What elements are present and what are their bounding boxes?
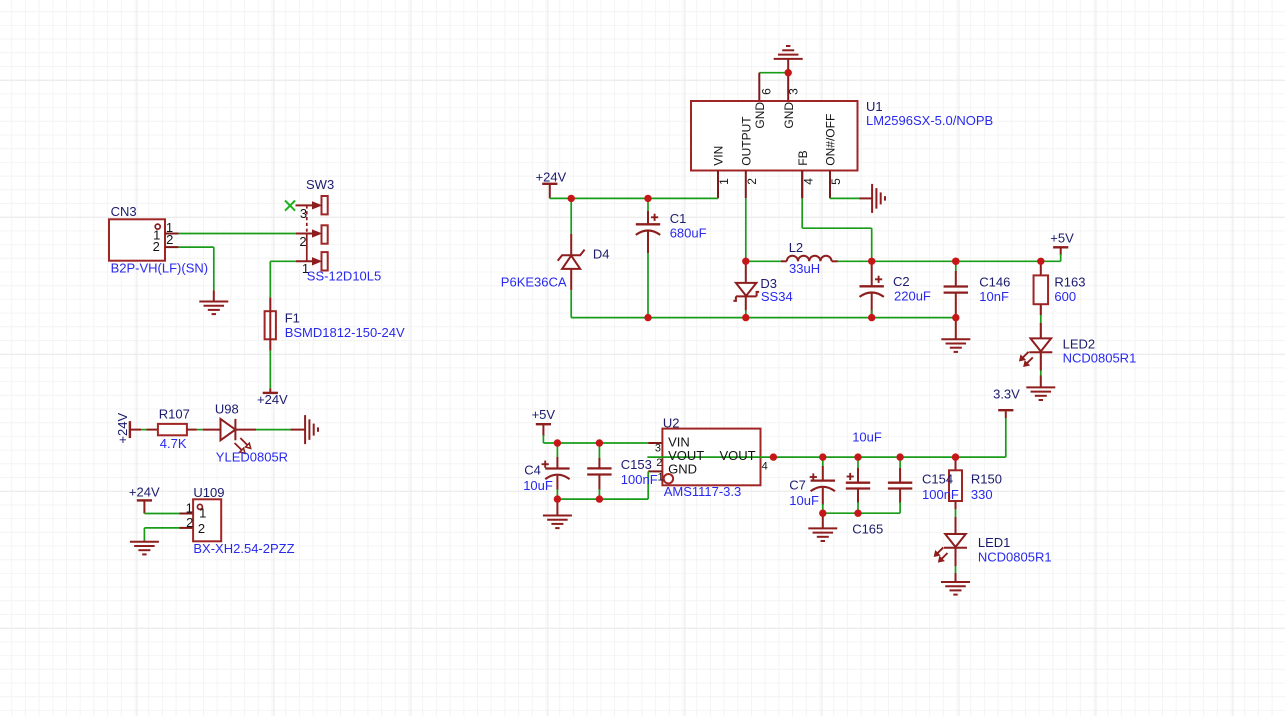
- svg-text:F1: F1: [285, 311, 300, 326]
- svg-text:R150: R150: [971, 471, 1002, 486]
- svg-text:2: 2: [198, 521, 205, 536]
- svg-text:U98: U98: [215, 402, 239, 417]
- svg-text:5: 5: [829, 178, 843, 185]
- svg-text:+5V: +5V: [532, 407, 556, 422]
- svg-text:GND: GND: [753, 102, 767, 129]
- svg-text:SS34: SS34: [761, 289, 793, 304]
- svg-text:100nF: 100nF: [621, 472, 658, 487]
- svg-text:GND: GND: [668, 462, 697, 477]
- svg-text:10nF: 10nF: [979, 289, 1009, 304]
- svg-text:C2: C2: [893, 274, 910, 289]
- svg-text:P6KE36CA: P6KE36CA: [501, 274, 567, 289]
- svg-text:C153: C153: [621, 457, 652, 472]
- svg-text:33uH: 33uH: [789, 261, 820, 276]
- svg-text:C146: C146: [979, 274, 1010, 289]
- svg-text:2: 2: [166, 232, 173, 247]
- svg-text:1: 1: [658, 472, 664, 484]
- svg-text:3.3V: 3.3V: [993, 386, 1020, 401]
- svg-text:VIN: VIN: [712, 146, 726, 166]
- svg-text:B2P-VH(LF)(SN): B2P-VH(LF)(SN): [111, 261, 209, 276]
- svg-text:NCD0805R1: NCD0805R1: [978, 549, 1052, 564]
- svg-text:YLED0805R: YLED0805R: [216, 449, 288, 464]
- svg-text:L2: L2: [789, 240, 803, 255]
- svg-text:1: 1: [186, 500, 193, 515]
- svg-text:VOUT: VOUT: [720, 448, 756, 463]
- svg-text:680uF: 680uF: [670, 226, 707, 241]
- svg-text:C4: C4: [524, 462, 541, 477]
- svg-text:+5V: +5V: [1050, 230, 1074, 245]
- svg-text:SW3: SW3: [306, 177, 334, 192]
- svg-text:2: 2: [656, 457, 662, 469]
- svg-text:C165: C165: [852, 521, 883, 536]
- svg-text:100nF: 100nF: [922, 487, 959, 502]
- svg-text:2: 2: [745, 178, 759, 185]
- svg-text:+24V: +24V: [257, 392, 288, 407]
- svg-text:2: 2: [299, 234, 306, 249]
- svg-text:LM2596SX-5.0/NOPB: LM2596SX-5.0/NOPB: [866, 113, 993, 128]
- svg-text:3: 3: [655, 442, 661, 454]
- svg-text:D4: D4: [593, 246, 610, 261]
- svg-text:NCD0805R1: NCD0805R1: [1063, 351, 1137, 366]
- svg-text:6: 6: [760, 88, 774, 95]
- svg-text:+24V: +24V: [536, 170, 567, 185]
- svg-text:3: 3: [300, 206, 307, 221]
- svg-text:10uF: 10uF: [789, 493, 819, 508]
- svg-text:4: 4: [801, 178, 815, 185]
- svg-text:600: 600: [1054, 289, 1076, 304]
- svg-text:1: 1: [717, 178, 731, 185]
- svg-text:2: 2: [186, 515, 193, 530]
- svg-text:2: 2: [153, 239, 160, 254]
- svg-text:R163: R163: [1054, 274, 1085, 289]
- svg-text:OUTPUT: OUTPUT: [740, 116, 754, 166]
- svg-text:10uF: 10uF: [523, 478, 553, 493]
- svg-text:C1: C1: [670, 211, 687, 226]
- svg-text:AMS1117-3.3: AMS1117-3.3: [664, 484, 742, 499]
- svg-text:+24V: +24V: [129, 485, 160, 500]
- svg-text:ON#/OFF: ON#/OFF: [824, 114, 838, 166]
- svg-text:U1: U1: [866, 99, 883, 114]
- svg-text:LED2: LED2: [1063, 337, 1096, 352]
- svg-text:U109: U109: [193, 485, 224, 500]
- svg-text:+24V: +24V: [115, 413, 130, 444]
- svg-text:10uF: 10uF: [852, 429, 882, 444]
- svg-text:330: 330: [971, 487, 993, 502]
- svg-text:BX-XH2.54-2PZZ: BX-XH2.54-2PZZ: [193, 541, 294, 556]
- svg-text:LED1: LED1: [978, 535, 1011, 550]
- svg-text:4: 4: [762, 460, 768, 472]
- svg-text:SS-12D10L5: SS-12D10L5: [307, 268, 381, 283]
- svg-text:1: 1: [199, 506, 206, 521]
- svg-text:4.7K: 4.7K: [160, 436, 187, 451]
- svg-text:3: 3: [787, 88, 801, 95]
- svg-text:C7: C7: [789, 477, 806, 492]
- svg-text:C154: C154: [922, 471, 953, 486]
- svg-text:GND: GND: [782, 102, 796, 129]
- svg-text:BSMD1812-150-24V: BSMD1812-150-24V: [285, 325, 405, 340]
- svg-text:R107: R107: [159, 407, 190, 422]
- svg-text:CN3: CN3: [111, 204, 137, 219]
- svg-text:FB: FB: [796, 150, 810, 165]
- svg-text:220uF: 220uF: [894, 289, 931, 304]
- svg-text:U2: U2: [663, 415, 680, 430]
